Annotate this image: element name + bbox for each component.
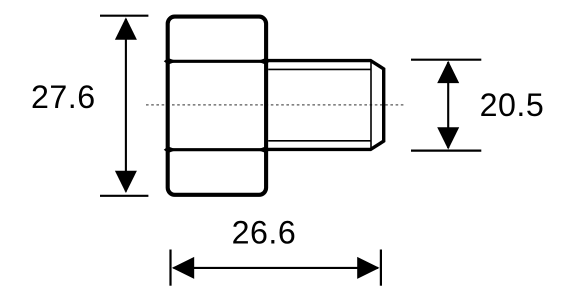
hex facet divider lower-right junction flare — [257, 146, 270, 153]
dimension 26.6 left arrowhead — [172, 257, 194, 279]
hex facet divider upper-right junction flare — [257, 58, 270, 65]
dimension 27.6 top extension line — [100, 15, 148, 17]
hex facet divider line lower — [167, 148, 268, 151]
dimension 27.6 top arrowhead — [115, 17, 137, 39]
dimension 20.5 bottom extension line — [411, 150, 481, 152]
svg-text:27.6: 27.6 — [31, 79, 96, 115]
thread minor diameter line bottom — [268, 140, 371, 142]
dimension 26.6 right extension line — [380, 250, 382, 286]
dimension 20.5 dimension line — [447, 62, 449, 148]
thread minor diameter line top — [268, 68, 371, 70]
dimension 27.6 bottom arrowhead — [115, 171, 137, 193]
dimension 20.5 bottom arrowhead — [437, 127, 459, 149]
hex facet divider line upper — [167, 60, 268, 63]
dimension 20.5 top extension line — [411, 59, 481, 61]
dimension 26.6 left extension line — [169, 250, 171, 286]
svg-text:20.5: 20.5 — [480, 87, 545, 123]
dimension 26.6 right arrowhead — [357, 257, 379, 279]
threaded shaft outline with chamfered end — [266, 61, 384, 150]
chamfer start vertical line — [370, 62, 372, 149]
hex head outline — [168, 17, 266, 195]
dimension 20.5 top arrowhead — [437, 61, 459, 83]
centerline (dashed axis through part) — [146, 104, 404, 106]
svg-text:26.6: 26.6 — [232, 214, 297, 250]
dimension 27.6 dimension line — [125, 19, 127, 192]
dimension 26.6 dimension line — [174, 267, 378, 269]
hex facet divider lower-left junction flare — [164, 146, 177, 153]
dimension 27.6 bottom extension line — [100, 195, 148, 197]
hex facet divider upper-left junction flare — [164, 58, 177, 65]
